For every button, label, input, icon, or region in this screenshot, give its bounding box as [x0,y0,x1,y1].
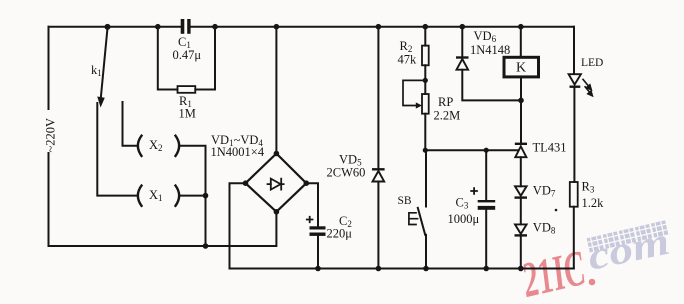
svg-text:2CW60: 2CW60 [327,166,366,180]
svg-text:K: K [516,60,526,75]
svg-text:220μ: 220μ [327,227,353,241]
svg-text:1N4001×4: 1N4001×4 [211,145,265,159]
svg-text:TL431: TL431 [533,140,567,154]
svg-text:SB: SB [398,195,412,207]
svg-text:R2: R2 [400,39,413,54]
svg-text:2.2M: 2.2M [434,108,461,122]
svg-text:1N4148: 1N4148 [470,43,510,57]
svg-text:C3: C3 [456,195,469,210]
svg-text:X1: X1 [149,188,163,203]
svg-text:R3: R3 [582,180,595,195]
svg-text:k1: k1 [91,63,102,78]
svg-text:LED: LED [581,57,603,69]
svg-text:VD6: VD6 [474,29,497,44]
svg-text:VD8: VD8 [533,221,556,236]
svg-text:1.2k: 1.2k [582,196,605,210]
svg-text:RP: RP [438,95,453,109]
svg-text:0.47μ: 0.47μ [173,48,202,62]
svg-text:VD7: VD7 [533,183,556,198]
svg-text:1000μ: 1000μ [448,212,480,226]
svg-text:X2: X2 [149,138,163,153]
svg-text:1M: 1M [179,106,196,120]
svg-text:~220V: ~220V [44,118,58,153]
svg-text:21IC: 21IC [516,239,590,304]
svg-text:47k: 47k [398,53,418,67]
